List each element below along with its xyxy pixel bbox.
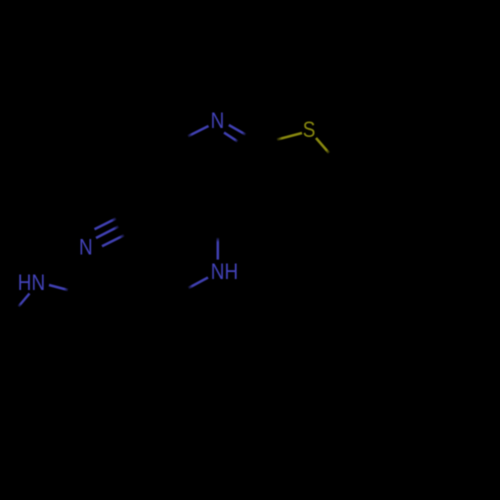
wire: HN down-left half-bond <box>19 294 30 307</box>
wire: S to C7a half-bond <box>277 133 302 140</box>
wire: NH up to C4 half-bond <box>217 238 220 260</box>
svg-text:N: N <box>211 109 225 134</box>
svg-text:HN: HN <box>18 270 45 295</box>
wire: S to C2 half-bond <box>316 138 329 153</box>
wire: pyridine N=C7a double bond outer line <box>229 125 246 135</box>
wire: NH down-left to CH2 half-bond <box>189 278 209 289</box>
wire: pyridine N to C6 half-bond <box>188 126 209 136</box>
wire: nitrile triple bond line 1 <box>95 219 117 230</box>
svg-text:NH: NH <box>211 260 238 285</box>
wire: HN right half-bond <box>49 285 68 290</box>
wire: pyridine N=C7a double bond inner line <box>224 133 238 142</box>
svg-text:S: S <box>303 118 316 143</box>
wire: nitrile triple bond line 3 <box>102 235 124 246</box>
svg-text:N: N <box>79 235 93 260</box>
wire: nitrile triple bond line 2 <box>96 227 119 239</box>
